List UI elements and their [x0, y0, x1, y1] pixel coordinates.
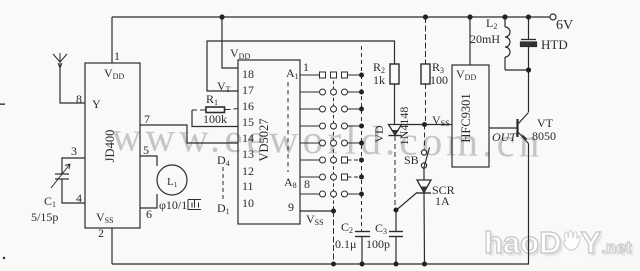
svg-text:1A: 1A [435, 194, 450, 208]
wire: matrix right dot bus [361, 46, 363, 231]
buzzer HTD [528, 17, 530, 39]
antenna [53, 53, 67, 68]
svg-text:0.1μ: 0.1μ [335, 237, 356, 251]
IC U3 HFC9301 body [452, 65, 489, 167]
wire: JD400 pin1 riser [111, 17, 113, 63]
svg-text:11: 11 [242, 179, 254, 193]
svg-text:10: 10 [242, 196, 254, 210]
capacitor C3 100p [389, 232, 403, 237]
wire: L2 bottom to HTD node [505, 69, 529, 71]
wire: R1 left lead to VD5027 pin15 [192, 109, 206, 111]
node: rail / L2 [502, 14, 507, 19]
svg-text:6V: 6V [556, 18, 573, 33]
terminal 6V [550, 14, 556, 20]
wire: VDD drop to VD5027 pin18 [222, 17, 238, 68]
wire: C1 top to JD400 pin3 [62, 158, 85, 174]
svg-text:VSS: VSS [432, 113, 450, 128]
svg-text:A1: A1 [286, 66, 299, 81]
svg-text:D1: D1 [217, 201, 230, 216]
wire: VT line from VD5027 pin17 to R2 [207, 41, 395, 91]
matrix row A6 [300, 157, 359, 163]
svg-text:4: 4 [76, 191, 82, 205]
node: rail / R3 [423, 14, 428, 19]
wire: rail to R3 top [425, 17, 427, 64]
svg-text:7: 7 [144, 112, 150, 126]
svg-text:9: 9 [288, 200, 294, 214]
svg-text:1N4148: 1N4148 [397, 107, 411, 146]
wire: SCR gate [397, 193, 417, 210]
matrix row A4 [300, 123, 359, 129]
matrix row A2 [300, 89, 359, 95]
node: VSS pin9 junction [331, 209, 336, 214]
svg-text:20mH: 20mH [470, 32, 500, 46]
svg-text:1k: 1k [373, 73, 385, 87]
svg-text:5: 5 [143, 143, 149, 157]
matrix row A1: wire, 3 square pads, link [300, 72, 359, 78]
inductor L1 loop [157, 165, 187, 195]
svg-text:VDD: VDD [104, 66, 124, 81]
node: matrix dot row5 [359, 141, 364, 146]
IC U2 VD5027 body [238, 60, 300, 224]
svg-text:L2: L2 [486, 16, 497, 31]
node: matrix dot row7 [359, 175, 364, 180]
node: matrix dot row8 [359, 192, 364, 197]
svg-text:VSS: VSS [96, 210, 114, 225]
node: rail / VD5027 VDD [219, 14, 224, 19]
svg-text:JD400: JD400 [103, 130, 117, 163]
wire: emitter down to ground rail [528, 144, 530, 265]
dashed range line D4-D1 [222, 167, 224, 199]
wire: antenna to JD400 pin8 [60, 68, 85, 103]
svg-text:HFC9301: HFC9301 [459, 93, 473, 142]
svg-text:L1: L1 [167, 176, 178, 189]
svg-text:12: 12 [242, 164, 254, 178]
wire: JD400 pin7 to VD5027 pin14 [140, 125, 238, 143]
transistor VT 8050 [516, 119, 518, 137]
inductor L2 20mH [505, 17, 510, 70]
svg-text:VT: VT [537, 116, 554, 130]
svg-text:VT: VT [217, 79, 231, 94]
capacitor C1 trimmer 5/15p [51, 164, 70, 188]
wire: rail to HFC9301 VDD [469, 17, 471, 65]
wire: SCR cathode to rail [423, 193, 426, 264]
svg-text:3: 3 [71, 144, 77, 158]
wire: HFC9301 OUT to base [489, 127, 518, 129]
dashed internal separator A1-A8 [287, 82, 289, 172]
svg-text:16: 16 [242, 99, 254, 113]
all text labels [31, 16, 573, 251]
node: L2/HTD/collector [526, 67, 531, 72]
resistor R1 100k body [206, 107, 225, 113]
node: rail / mid bus [331, 262, 336, 267]
resistor R3 100 body [421, 64, 430, 84]
svg-text:VD: VD [372, 125, 386, 143]
node: SCR gate / C3 [394, 208, 399, 213]
svg-text:OUT: OUT [492, 130, 517, 144]
svg-text:VDD: VDD [230, 46, 250, 61]
node: rail / HTD [526, 14, 531, 19]
wire: C1 bottom to JD400 pin4 [62, 179, 85, 203]
svg-text:2: 2 [98, 226, 104, 240]
wire: +6V top supply rail [112, 16, 550, 18]
svg-text:Y: Y [92, 97, 101, 111]
matrix row A3 [300, 106, 359, 112]
wire: JD400 pin2 to bottom rail [111, 228, 113, 264]
wire: matrix mid bus down to ground rail [333, 211, 335, 264]
svg-text:8: 8 [76, 92, 82, 106]
node: rail / HFC9301 VDD [467, 14, 472, 19]
wire: C2 bottom to rail [361, 237, 363, 265]
wire: SB to SCR anode [423, 168, 425, 180]
svg-text:HTD: HTD [541, 37, 568, 52]
wire: VSS line from diode to HFC9301 [402, 124, 453, 126]
scan speck left edge [0, 104, 5, 105]
svg-text:A8: A8 [284, 175, 297, 190]
watermark eeworld [111, 112, 544, 167]
svg-text:D4: D4 [217, 153, 230, 168]
node: matrix dot row4 [359, 124, 364, 129]
svg-text:17: 17 [242, 83, 254, 97]
scan speck bottom left [3, 257, 5, 259]
svg-text:18: 18 [242, 67, 254, 81]
svg-text:1: 1 [114, 49, 120, 63]
svg-text:VDD: VDD [456, 67, 476, 82]
svg-text:φ10/1: φ10/1 [159, 198, 187, 212]
svg-text:1: 1 [303, 60, 309, 74]
wire: matrix mid column bus [333, 75, 335, 211]
wire: C3 bottom to rail [395, 237, 397, 265]
svg-text:C1: C1 [44, 194, 56, 209]
node: matrix dot row1 [359, 73, 364, 78]
capacitor C2 0.1u [355, 232, 370, 237]
svg-text:100k: 100k [203, 112, 227, 126]
wire: R1 right lead to VD5027 pin16 [225, 109, 239, 110]
svg-text:VSS: VSS [306, 212, 324, 227]
wire: JD400 pin5 to L1 [140, 156, 157, 166]
switch SB pushbutton [421, 150, 426, 155]
watermark haoDIY.net logo [484, 225, 631, 261]
svg-text:SB: SB [404, 153, 419, 167]
svg-text:8: 8 [304, 177, 310, 191]
svg-text:100p: 100p [366, 237, 390, 251]
svg-text:100: 100 [430, 73, 448, 87]
wire: L1 to JD400 pin6 [140, 194, 157, 208]
wire: HTD node to collector [528, 70, 530, 112]
wire: VSS node down to switch SB [424, 125, 426, 150]
matrix row A5 [300, 140, 359, 146]
svg-text:R1: R1 [206, 92, 218, 107]
wire: R3 bottom to VSS line [425, 84, 427, 125]
svg-text:C3: C3 [375, 221, 387, 236]
svg-text:5/15p: 5/15p [31, 210, 58, 224]
svg-text:C2: C2 [341, 220, 353, 235]
node: matrix dot row2 [359, 90, 364, 95]
node: rail / C2 [360, 262, 365, 267]
svg-text:6: 6 [146, 207, 152, 221]
svg-text:VD5027: VD5027 [257, 118, 271, 161]
wire: bottom ground rail [112, 263, 529, 265]
matrix row A8 [300, 191, 359, 197]
label turn glyph (Chinese za) drawn as strokes [188, 200, 201, 210]
diode VD 1N4148 [389, 125, 402, 136]
node: matrix dot row6 [359, 158, 364, 163]
matrix row A7 [300, 174, 359, 180]
node: matrix dot row3 [359, 107, 364, 112]
svg-text:13: 13 [242, 147, 254, 161]
wire: VD5027 pin9 VSS to matrix bus [300, 210, 334, 212]
svg-text:8050: 8050 [532, 129, 556, 143]
resistor R2 1k body [390, 64, 399, 84]
wire: C3 top to SCR gate node [395, 210, 397, 232]
node: rail / C3 [394, 262, 399, 267]
IC U1 JD400 body [85, 63, 140, 228]
node: VSS line / R3 / SB [422, 122, 427, 127]
node: rail / SCR [422, 262, 427, 267]
wire: VD cathode to SCR gate node (dashed bus) [394, 136, 396, 208]
svg-text:15: 15 [242, 115, 254, 129]
wire: R2 bottom to diode VD [394, 84, 396, 124]
svg-text:14: 14 [242, 131, 254, 145]
thyristor SCR 1A [417, 180, 431, 193]
